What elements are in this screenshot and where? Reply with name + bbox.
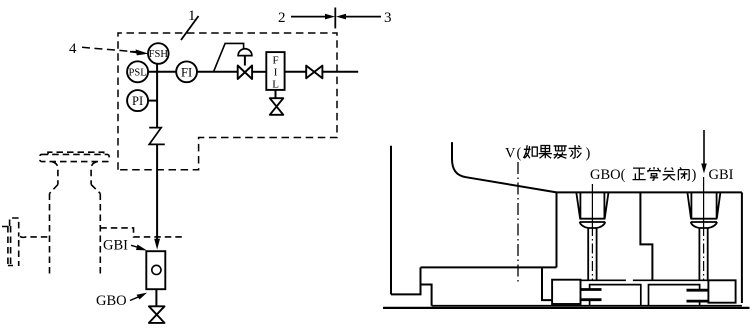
label GBI (left)	[103, 238, 128, 254]
char 正	[633, 168, 646, 180]
arrowhead 3	[336, 14, 346, 20]
instrument PI	[127, 90, 148, 111]
wire valve to FIL	[252, 71, 266, 73]
leader GBO	[130, 296, 141, 301]
GBO centerline	[591, 184, 593, 226]
wellhead body sides (dashed)	[50, 194, 101, 276]
right gland box	[708, 280, 735, 302]
GBI piston fingers	[687, 290, 709, 301]
control valve body	[238, 66, 252, 80]
GBI cylinder	[649, 285, 700, 306]
left gland box	[552, 280, 580, 304]
right wall	[741, 192, 743, 303]
instrument FSH	[148, 43, 169, 64]
dimension tick	[334, 8, 336, 29]
char 常	[648, 167, 660, 180]
GBI port funnel	[691, 222, 717, 228]
wire PI stub	[148, 100, 157, 102]
GBO port seat	[579, 219, 605, 222]
GBI stem	[699, 228, 707, 280]
GBO port funnel	[580, 222, 606, 228]
wellhead flange main plate (dashed)	[40, 154, 109, 161]
top face segments	[557, 191, 742, 193]
dimension line 3	[345, 16, 381, 18]
casing side outlet verticals (dashed)	[2, 226, 19, 266]
arrowhead 2	[325, 14, 335, 20]
section cavity wall A	[556, 192, 558, 267]
label 3	[384, 10, 392, 26]
GBI centerline	[703, 177, 705, 226]
probe drain stub	[155, 289, 157, 306]
block valve V2	[306, 66, 322, 79]
control valve diaphragm actuator	[238, 49, 252, 56]
instrument PSL	[127, 61, 148, 82]
label 1	[188, 8, 196, 24]
leader GBI	[131, 245, 142, 248]
GBI port cup	[687, 192, 720, 218]
char 关	[663, 167, 676, 180]
label 2	[278, 10, 286, 26]
instrument FI	[176, 61, 197, 82]
char 闭	[678, 167, 689, 180]
pipe break symbol	[149, 128, 165, 145]
section inner step	[421, 285, 432, 306]
dimension line 2	[291, 16, 327, 18]
structure bottom line	[432, 305, 742, 307]
flowline jog (dashed)	[100, 228, 183, 237]
arrowhead into GBI port	[154, 239, 160, 250]
control valve stem	[244, 56, 246, 66]
wellhead neck (dashed)	[53, 162, 97, 185]
middle divider step	[640, 192, 652, 280]
GBO piston fingers	[581, 290, 602, 300]
svg-text:): )	[692, 167, 697, 183]
label V( 如果要求 )	[517, 146, 591, 162]
label V	[505, 146, 516, 162]
section left wall	[390, 146, 392, 295]
section curved cap profile	[452, 142, 557, 192]
bottom plate segments	[581, 279, 709, 281]
label 4	[69, 41, 77, 57]
char 果	[539, 145, 552, 158]
label GBO (section)	[590, 167, 697, 183]
section foot step	[391, 267, 421, 294]
GBI port seat	[691, 219, 718, 222]
GBO cylinder	[590, 285, 641, 306]
label GBO (left)	[96, 293, 127, 309]
ground line	[383, 307, 750, 309]
GBO port cup	[576, 192, 608, 218]
label GBI (section)	[709, 167, 734, 183]
GBI arrow	[703, 130, 705, 165]
outlet pipe	[322, 71, 358, 73]
wire FSH stub down / vertical main upper	[156, 64, 158, 128]
wire PSL to FI	[148, 71, 176, 73]
leader for label 4 (dashed with arrow)	[82, 47, 136, 52]
sand probe body	[146, 251, 165, 289]
leader for label 1	[181, 16, 199, 40]
casing outlet connector (dashed)	[20, 236, 50, 239]
char 求	[569, 145, 582, 158]
wellhead flange top plate (dashed)	[48, 152, 104, 154]
casing side outlet bracket (dashed)	[10, 218, 19, 237]
wire FI to control valve	[197, 71, 238, 73]
section cavity ledge	[542, 267, 552, 300]
wellhead shoulder chamfers (dashed)	[50, 185, 101, 194]
svg-text:GBI: GBI	[709, 167, 734, 183]
filter FIL box	[266, 52, 284, 90]
sensing signal line	[214, 43, 244, 71]
probe drain valve	[149, 306, 165, 323]
FIL drain valve	[270, 98, 284, 115]
char 要	[554, 146, 567, 158]
section platform	[421, 266, 557, 268]
sand probe circle	[152, 265, 161, 274]
wire FIL to block valve	[285, 71, 307, 73]
package boundary dashed box	[118, 33, 337, 170]
centerline V (dash-dot)	[517, 162, 519, 282]
wire vertical main lower	[156, 144, 158, 240]
GBO stem	[588, 228, 596, 280]
char 如	[524, 145, 538, 158]
FIL drain stub	[275, 90, 277, 98]
svg-text:GBO(: GBO(	[590, 167, 626, 183]
